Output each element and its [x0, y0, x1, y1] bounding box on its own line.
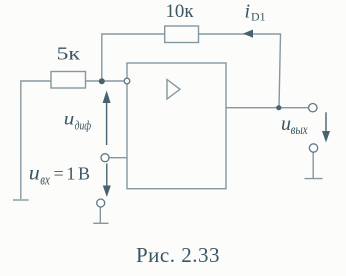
svg-text:10к: 10к [166, 2, 194, 22]
svg-text:вх: вх [40, 172, 50, 188]
wire feedback up left [102, 34, 165, 81]
op-amp U1 triangle [167, 80, 180, 100]
ground lower right [312, 152, 314, 178]
ground left [13, 199, 29, 201]
svg-text:Рис. 2.33: Рис. 2.33 [136, 243, 220, 267]
svg-text:диф: диф [75, 118, 92, 133]
svg-text:вых: вых [291, 122, 308, 137]
ground lower left [99, 207, 101, 223]
svg-text:5к: 5к [57, 44, 81, 64]
resistor R2 10k [165, 26, 199, 43]
svg-text:u: u [281, 113, 291, 135]
svg-text:u: u [29, 162, 40, 184]
op-amp U1 box [127, 63, 226, 189]
current arrow iD1 [243, 30, 253, 38]
output terminal lower circle [309, 144, 317, 152]
resistor R1 5k [51, 72, 86, 89]
svg-text:i: i [245, 1, 251, 23]
node B output junction dot [276, 105, 281, 110]
arrow u_vx down [103, 164, 111, 198]
input terminal lower circle [97, 199, 105, 207]
wire feedback top right [199, 34, 281, 108]
svg-text:u: u [64, 109, 75, 129]
arrow u_vyx down [322, 112, 330, 142]
wire output [226, 107, 309, 109]
op-amp inverting input terminal circle [124, 78, 130, 84]
input terminal upper circle [101, 154, 109, 162]
output terminal upper circle [309, 104, 317, 112]
node A junction dot [99, 78, 105, 84]
svg-text:= 1 В: = 1 В [54, 164, 91, 184]
wire R1 to op-amp input [86, 80, 128, 82]
arrow u_dif up [103, 91, 111, 146]
wire non-inverting input [109, 157, 127, 159]
wire left input branch [21, 81, 51, 199]
svg-text:D1: D1 [251, 12, 266, 24]
